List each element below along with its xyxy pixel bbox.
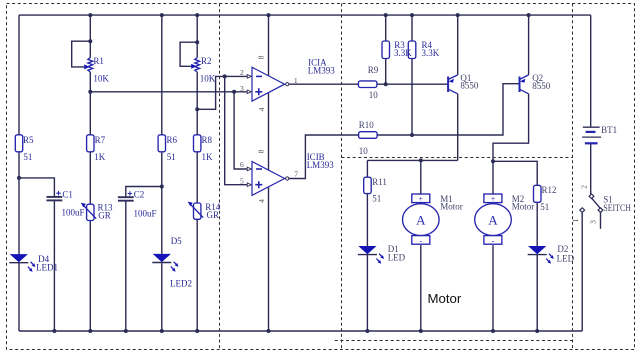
svg-text:3.3K: 3.3K [422,48,440,58]
svg-text:LED1: LED1 [36,262,58,272]
svg-text:-: - [492,236,495,245]
svg-text:GR: GR [98,211,111,221]
svg-text:A: A [488,212,498,227]
svg-text:LM393: LM393 [307,160,335,170]
svg-text:10: 10 [369,90,379,100]
svg-text:10K: 10K [200,74,216,84]
svg-text:BT1: BT1 [601,125,617,135]
svg-text:Motor: Motor [512,201,535,211]
svg-text:5: 5 [240,176,244,185]
svg-text:SEITCH: SEITCH [603,203,631,213]
svg-text:R8: R8 [202,135,213,145]
svg-text:51: 51 [167,152,176,162]
svg-text:100uF: 100uF [134,209,157,219]
svg-text:10: 10 [359,146,369,156]
svg-text:100uF: 100uF [62,208,85,218]
svg-text:7: 7 [294,169,298,178]
svg-text:R7: R7 [95,135,106,145]
svg-text:A: A [416,212,426,227]
svg-text:+: + [491,194,496,203]
svg-text:8550: 8550 [532,81,551,91]
svg-text:1: 1 [571,218,580,222]
svg-text:1K: 1K [202,152,214,162]
svg-text:R1: R1 [93,56,104,66]
svg-text:LED2: LED2 [170,279,192,289]
svg-text:R11: R11 [372,177,387,187]
svg-text:51: 51 [372,194,381,204]
svg-text:4: 4 [257,107,266,111]
svg-text:C2: C2 [134,190,145,200]
svg-text:R10: R10 [359,120,375,130]
svg-text:8: 8 [257,55,266,59]
svg-text:8: 8 [257,149,266,153]
svg-text:4: 4 [257,199,266,203]
svg-text:R2: R2 [201,56,212,66]
svg-text:51: 51 [23,152,32,162]
svg-text:6: 6 [240,160,244,169]
svg-text:8550: 8550 [460,81,479,91]
svg-text:LED: LED [388,253,406,263]
svg-text:Motor: Motor [440,201,463,211]
svg-text:R6: R6 [167,135,178,145]
svg-text:2: 2 [240,68,244,77]
svg-text:R5: R5 [23,135,34,145]
svg-text:-: - [419,236,422,245]
svg-text:1K: 1K [94,152,106,162]
svg-text:D5: D5 [171,236,182,246]
svg-text:3: 3 [240,84,244,93]
svg-text:3: 3 [589,220,598,224]
svg-text:3.3K: 3.3K [394,48,412,58]
svg-text:GR: GR [207,210,220,220]
svg-text:R9: R9 [368,65,379,75]
svg-text:51: 51 [540,202,549,212]
svg-text:C1: C1 [62,189,73,199]
svg-text:+: + [419,194,424,203]
svg-text:LM393: LM393 [308,65,336,75]
svg-text:10K: 10K [93,74,109,84]
svg-text:1: 1 [294,76,298,85]
svg-text:2: 2 [580,185,589,189]
svg-text:R12: R12 [542,185,557,195]
svg-text:LED: LED [557,253,575,263]
svg-text:Motor: Motor [428,291,462,306]
